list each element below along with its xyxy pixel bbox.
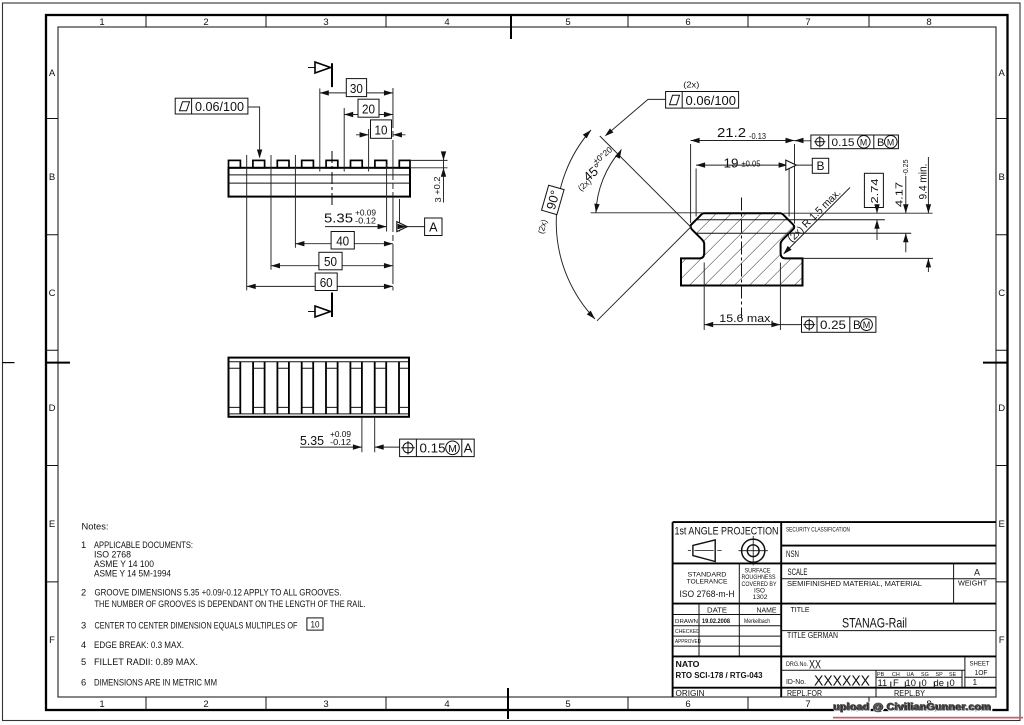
svg-text:-0.25: -0.25: [903, 159, 910, 175]
svg-text:DRAWN: DRAWN: [675, 619, 698, 625]
svg-text:DATE: DATE: [707, 606, 727, 615]
svg-text:C: C: [49, 288, 56, 299]
dim 20: [344, 114, 393, 116]
hidden/projected edges inside section: [696, 220, 911, 234]
svg-text:40: 40: [336, 233, 349, 248]
svg-text:RTO SCI-178 / RTG-043: RTO SCI-178 / RTG-043: [676, 670, 763, 680]
svg-text:DRG.No.: DRG.No.: [786, 661, 808, 668]
svg-text:FILLET RADII: 0.89 MAX.: FILLET RADII: 0.89 MAX.: [94, 657, 198, 667]
dim 5.35 with datum A: [325, 226, 425, 228]
svg-text:20: 20: [362, 101, 375, 116]
svg-text:0.15: 0.15: [420, 441, 446, 456]
svg-text:5: 5: [565, 17, 570, 28]
svg-text:0: 0: [922, 677, 927, 688]
dim 60: [247, 285, 393, 287]
svg-text:A: A: [464, 441, 473, 456]
svg-text:4.17: 4.17: [895, 182, 906, 207]
svg-text:4: 4: [444, 17, 449, 28]
svg-text:4: 4: [444, 699, 449, 710]
svg-text:30: 30: [350, 81, 363, 96]
svg-text:SCALE: SCALE: [788, 567, 808, 577]
dim 15.6 max with FCF 0.25: [704, 263, 801, 331]
dim 5.35 with FCF: [300, 418, 400, 452]
svg-text:E: E: [999, 519, 1005, 530]
svg-text:1: 1: [99, 17, 104, 28]
svg-text:1: 1: [973, 677, 978, 687]
svg-text:M: M: [448, 443, 457, 455]
svg-text:TOLERANCE: TOLERANCE: [687, 578, 729, 585]
svg-text:11: 11: [878, 677, 888, 688]
svg-text:EDGE BREAK: 0.3 MAX.: EDGE BREAK: 0.3 MAX.: [94, 640, 184, 650]
svg-text:-0.12: -0.12: [330, 438, 351, 447]
svg-text:GROOVE DIMENSIONS 5.35 +0.09/-: GROOVE DIMENSIONS 5.35 +0.09/-0.12 APPLY…: [95, 587, 342, 597]
svg-text:A: A: [999, 68, 1006, 79]
svg-text:NSN: NSN: [786, 549, 799, 559]
svg-text:5: 5: [565, 699, 570, 710]
svg-text:B: B: [999, 172, 1005, 183]
R1.5 leader: [784, 188, 850, 254]
svg-text:F: F: [893, 677, 899, 688]
svg-text:ASME Y 14 100: ASME Y 14 100: [94, 559, 154, 569]
45 deg construction lines and 90 deg arc: [556, 130, 691, 321]
svg-text:6: 6: [685, 699, 690, 710]
svg-text:5.35: 5.35: [324, 211, 353, 226]
svg-text:2: 2: [81, 587, 86, 597]
svg-text:ID-No.: ID-No.: [786, 679, 806, 686]
svg-text:SECURITY CLASSIFICATION: SECURITY CLASSIFICATION: [786, 527, 850, 534]
rail body: [229, 168, 411, 197]
svg-text:7: 7: [805, 17, 810, 28]
svg-text:XX: XX: [809, 658, 821, 671]
svg-text:50: 50: [324, 254, 337, 269]
svg-text:0.15: 0.15: [832, 137, 855, 149]
svg-text:19.02.2008: 19.02.2008: [702, 618, 730, 625]
svg-text:±0.05: ±0.05: [742, 160, 761, 169]
svg-text:Merkelbach: Merkelbach: [744, 618, 770, 625]
svg-text:1302: 1302: [753, 594, 768, 601]
dim 3 +0.2: [443, 153, 445, 203]
svg-text:1: 1: [99, 699, 104, 710]
dim 10 (outside arrows): [356, 134, 406, 136]
svg-text:A: A: [429, 221, 438, 235]
svg-text:ASME Y 14 5M-1994: ASME Y 14 5M-1994: [94, 569, 171, 579]
svg-text:3: 3: [81, 620, 86, 630]
svg-text:1OF: 1OF: [975, 668, 988, 677]
svg-text:B: B: [816, 159, 824, 173]
main outline and dividers: [673, 522, 996, 697]
svg-text:0.06/100: 0.06/100: [195, 99, 244, 114]
svg-text:REPL.FOR: REPL.FOR: [787, 689, 822, 698]
dim 50: [271, 265, 393, 267]
90 deg boxed label (rotated): [542, 185, 565, 214]
svg-text:F: F: [49, 635, 55, 646]
slots: [240, 362, 399, 414]
svg-text:7: 7: [805, 699, 810, 710]
top surface extension lines: [591, 213, 933, 259]
svg-text:M: M: [887, 137, 894, 147]
svg-text:APPLICABLE DOCUMENTS:: APPLICABLE DOCUMENTS:: [94, 540, 193, 550]
svg-text:TITLE GERMAN: TITLE GERMAN: [787, 631, 838, 640]
svg-text:2: 2: [203, 699, 208, 710]
svg-text:NAME: NAME: [757, 606, 777, 615]
svg-text:8: 8: [926, 17, 931, 28]
svg-text:2: 2: [203, 17, 208, 28]
svg-text:SHEET: SHEET: [970, 660, 990, 667]
teeth: [229, 160, 411, 167]
svg-text:D: D: [49, 403, 56, 414]
centre line: [741, 198, 743, 319]
svg-text:3 +0.2: 3 +0.2: [433, 176, 443, 203]
svg-text:1st ANGLE PROJECTION: 1st ANGLE PROJECTION: [675, 525, 779, 537]
svg-text:6: 6: [81, 677, 86, 687]
svg-text:ORIGIN: ORIGIN: [676, 689, 705, 698]
flatness callout 0.06/100: [175, 98, 248, 114]
svg-text:Notes:: Notes:: [82, 521, 109, 531]
svg-text:F: F: [999, 635, 1005, 646]
svg-text:2.74: 2.74: [870, 178, 881, 203]
svg-text:60: 60: [320, 275, 333, 290]
svg-text:D: D: [998, 403, 1005, 414]
svg-text:APPROVED: APPROVED: [675, 639, 701, 645]
svg-text:XXXXXX: XXXXXX: [814, 674, 870, 690]
svg-text:B: B: [49, 172, 55, 183]
svg-text:THE NUMBER OF GROOVES IS DEPEN: THE NUMBER OF GROOVES IS DEPENDANT ON TH…: [95, 599, 366, 609]
svg-text:0.25: 0.25: [820, 319, 846, 332]
svg-text:15.6 max.: 15.6 max.: [719, 313, 774, 325]
svg-text:21.2: 21.2: [717, 125, 746, 140]
feature control frame 0.15 M A: [400, 439, 475, 457]
svg-text:0: 0: [950, 677, 955, 688]
svg-text:3: 3: [323, 699, 328, 710]
svg-text:STANDARD: STANDARD: [688, 571, 727, 578]
svg-text:NATO: NATO: [676, 659, 700, 669]
svg-text:10: 10: [906, 677, 916, 688]
svg-text:(2x): (2x): [683, 80, 699, 90]
svg-text:de: de: [934, 677, 944, 688]
svg-text:WEIGHT: WEIGHT: [958, 579, 987, 588]
svg-text:10: 10: [311, 620, 320, 630]
svg-text:REPL.BY: REPL.BY: [894, 689, 926, 698]
svg-text:SEMIFINISHED MATERIAL, MATERIA: SEMIFINISHED MATERIAL, MATERIAL: [787, 579, 922, 588]
svg-text:A: A: [49, 68, 56, 79]
dim 40: [295, 243, 393, 245]
svg-text:B: B: [877, 137, 884, 149]
section cut line + arrows: [331, 63, 333, 87]
dim 21.2 -0.13 with FCF 0.15: [691, 141, 811, 224]
svg-text:4: 4: [81, 640, 86, 650]
svg-text:19: 19: [724, 156, 739, 171]
dim 2.74 (boxed): [864, 173, 883, 207]
svg-text:DIMENSIONS ARE IN METRIC MM: DIMENSIONS ARE IN METRIC MM: [94, 677, 217, 687]
svg-text:0.06/100: 0.06/100: [686, 93, 737, 108]
svg-text:ISO 2768-m-H: ISO 2768-m-H: [680, 589, 735, 599]
svg-text:10: 10: [375, 122, 388, 137]
svg-text:M: M: [863, 320, 871, 330]
svg-text:upload @ CivilianGunner.com: upload @ CivilianGunner.com: [833, 702, 991, 713]
svg-text:A: A: [974, 568, 980, 578]
rail outline: [229, 358, 410, 417]
extension lines: [247, 88, 448, 290]
svg-text:M: M: [860, 137, 867, 147]
svg-text:C: C: [998, 288, 1005, 299]
tooth chamfer edges: [229, 368, 410, 407]
svg-text:5: 5: [81, 657, 86, 667]
svg-text:9.4 min.: 9.4 min.: [918, 164, 930, 200]
svg-text:CHECKED: CHECKED: [675, 629, 700, 635]
svg-text:1: 1: [81, 540, 86, 550]
rail cross-section profile (hatched): [681, 213, 803, 285]
svg-text:-0.12: -0.12: [355, 217, 376, 226]
dim 19 +-0.05 with datum B: [696, 164, 812, 166]
svg-text:6: 6: [685, 17, 690, 28]
svg-text:STANAG-Rail: STANAG-Rail: [842, 616, 907, 631]
svg-text:-0.13: -0.13: [749, 132, 766, 141]
svg-text:TITLE: TITLE: [791, 605, 810, 614]
svg-text:B: B: [853, 319, 861, 332]
svg-text:5.35: 5.35: [300, 433, 324, 448]
svg-text:E: E: [49, 519, 55, 530]
svg-text:CENTER TO CENTER DIMENSION EQU: CENTER TO CENTER DIMENSION EQUALS MULTIP…: [95, 620, 298, 630]
svg-text:3: 3: [323, 17, 328, 28]
dim 30: [320, 92, 393, 94]
